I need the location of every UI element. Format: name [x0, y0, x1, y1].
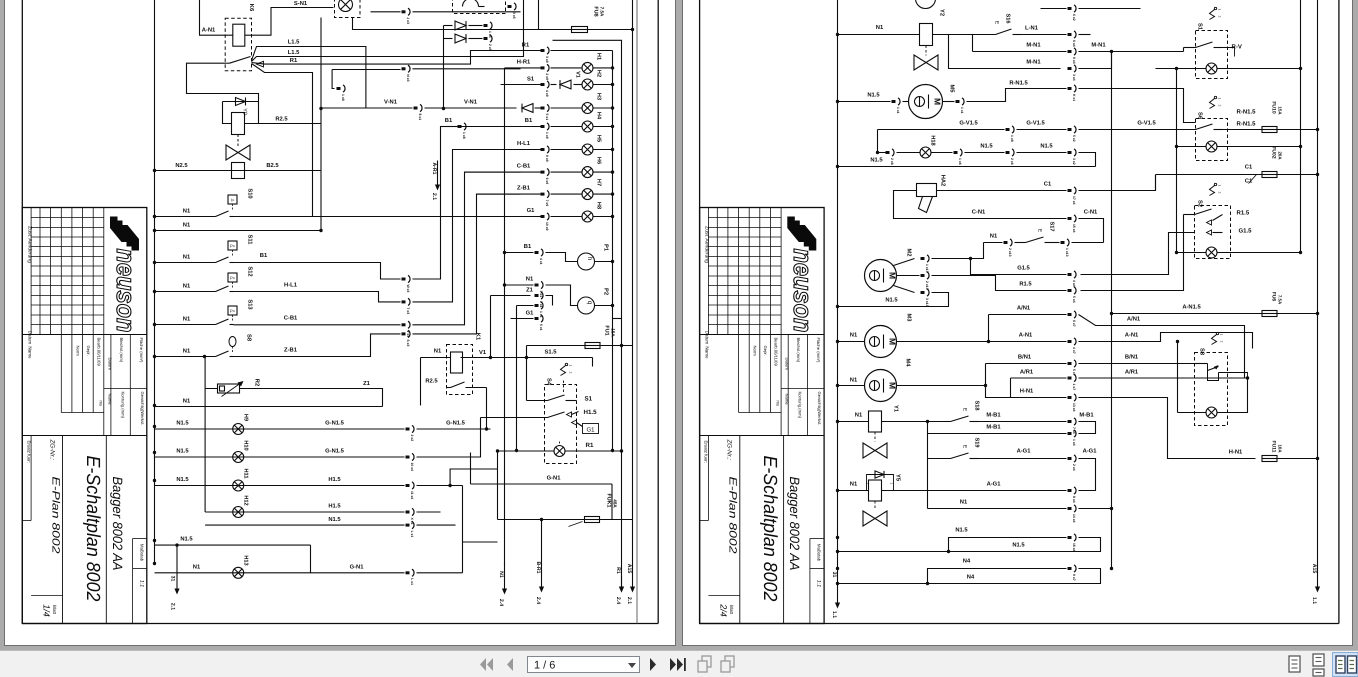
wire S10 G1: [234, 216, 521, 218]
svg-text:H18: H18: [930, 135, 936, 145]
page 1 frame left: [21, 0, 23, 624]
svg-text:1: 1: [1218, 98, 1222, 100]
svg-text:FU11: FU11: [1271, 441, 1277, 453]
svg-text:4 x7: 4 x7: [1072, 347, 1076, 354]
lamp row H10: [155, 456, 405, 458]
contact S4a: [526, 358, 528, 401]
svg-text:P1: P1: [603, 244, 609, 252]
switch S12: [228, 273, 237, 282]
svg-text:B1: B1: [260, 253, 268, 259]
svg-text:6 x2: 6 x2: [1072, 14, 1076, 21]
switch S4 head: [565, 363, 567, 365]
svg-text:G1.5: G1.5: [1017, 265, 1030, 272]
svg-text:R1.5: R1.5: [1019, 282, 1032, 288]
lamp row H11: [155, 485, 405, 487]
switch S16: [949, 34, 996, 36]
svg-text:G-V1.5: G-V1.5: [1026, 120, 1045, 127]
svg-text:Blechst.(mm): Blechst.(mm): [119, 338, 124, 363]
bus x621: [553, 40, 622, 575]
svg-text:N1: N1: [183, 223, 191, 229]
svg-text:N1: N1: [193, 565, 201, 571]
wire Z-B1 to conn S: [234, 334, 401, 357]
svg-text:J x3: J x3: [406, 17, 410, 24]
svg-text:B1: B1: [524, 244, 532, 250]
svg-text:Gepr.: Gepr.: [86, 346, 91, 356]
svg-text:1/4: 1/4: [41, 604, 51, 617]
svg-text:1 x8: 1 x8: [462, 132, 466, 139]
svg-text:Blechst.(mm): Blechst.(mm): [796, 338, 801, 363]
toolbar prev-page button (disabled): [507, 658, 513, 671]
svg-text:N1: N1: [850, 482, 858, 488]
svg-text:7.5A: 7.5A: [600, 7, 605, 17]
svg-text:L-N1: L-N1: [1025, 26, 1039, 32]
svg-text:N1.5: N1.5: [1012, 543, 1025, 549]
svg-text:H2: H2: [596, 70, 602, 77]
toolbar rotate-right icon (disabled): [725, 656, 734, 667]
switch S13: [228, 306, 237, 315]
svg-text:2: 2: [1218, 16, 1222, 18]
wire W to H4 row: [413, 127, 521, 280]
toolbar last-page button: [670, 658, 683, 671]
svg-text:H10: H10: [243, 440, 249, 450]
svg-text:A-N1.5: A-N1.5: [1182, 305, 1201, 311]
svg-text:H13: H13: [243, 555, 249, 565]
svg-text:M: M: [933, 98, 943, 105]
svg-text:Konturig.(mm): Konturig.(mm): [120, 392, 125, 419]
wire N1 K1 row: [155, 406, 383, 408]
svg-text:7.5A: 7.5A: [1278, 295, 1283, 305]
svg-text:Norm: Norm: [753, 346, 758, 357]
svg-text:31: 31: [831, 572, 837, 578]
svg-text:N1.5: N1.5: [176, 449, 189, 455]
svg-text:E: E: [962, 445, 968, 449]
wire to bus col: [252, 64, 313, 217]
wire L1.5 b: [252, 0, 524, 62]
svg-text:h: h: [586, 257, 593, 261]
conn J x3: [371, 11, 401, 13]
form grid: [748, 335, 750, 413]
page 2 frame bottom: [700, 623, 1339, 625]
svg-text:A15: A15: [1311, 564, 1317, 574]
motor M2: [865, 260, 897, 292]
pdf page 2 sheet: [682, 0, 1353, 646]
svg-text:S10: S10: [247, 188, 254, 198]
wire S17 feed: [971, 243, 984, 259]
svg-text:W x3: W x3: [406, 285, 410, 293]
Blatt cell: [31, 595, 62, 597]
contact K6: [230, 57, 251, 64]
svg-text:H-L1: H-L1: [517, 141, 531, 147]
svg-text:14 x4: 14 x4: [1072, 514, 1076, 523]
svg-text:V1: V1: [479, 350, 487, 356]
svg-text:ZG-Nr.:: ZG-Nr.:: [48, 439, 55, 461]
svg-text:A-N1: A-N1: [1125, 333, 1139, 339]
svg-text:2: 2: [866, 483, 870, 485]
svg-text:S1: S1: [585, 396, 593, 403]
svg-text:A-N1: A-N1: [202, 28, 216, 34]
switch S2: [1214, 183, 1216, 185]
svg-text:R2: R2: [254, 379, 261, 386]
wire N2.5 B2.5: [155, 170, 322, 172]
wire G1.5: [932, 259, 1067, 275]
svg-text:2.1: 2.1: [431, 193, 437, 200]
svg-text:2: 2: [1220, 341, 1224, 343]
svg-text:H-N1: H-N1: [1229, 450, 1243, 456]
svg-text:H6: H6: [596, 157, 602, 164]
bus x516: [516, 306, 518, 451]
svg-text:HA2: HA2: [940, 175, 947, 187]
bus x504: [504, 68, 506, 566]
svg-text:G-V1.5: G-V1.5: [1137, 120, 1156, 127]
svg-text:H11: H11: [243, 469, 249, 479]
lamp row H13: [155, 572, 405, 574]
page 1 inner frame hairline: [636, 0, 638, 624]
svg-text:2.4: 2.4: [615, 597, 621, 604]
switch S18: [951, 416, 969, 422]
svg-text:C-B1: C-B1: [517, 163, 531, 170]
svg-text:3 x4: 3 x4: [1072, 74, 1076, 81]
svg-text:A-G1: A-G1: [987, 481, 1002, 488]
svg-text:P>: P>: [230, 276, 236, 281]
svg-text:V-N1: V-N1: [464, 100, 478, 106]
svg-text:A15: A15: [626, 564, 632, 574]
svg-text:Datum: Datum: [785, 358, 790, 371]
wire B1 to conn W: [234, 263, 401, 280]
wire N1.5 row: [205, 524, 404, 526]
svg-text:R-N1.5: R-N1.5: [1009, 81, 1028, 87]
svg-text:B/N1: B/N1: [1018, 354, 1032, 361]
conn x8 down: [332, 70, 334, 89]
svg-text:P2: P2: [603, 288, 610, 295]
svg-text:Y1: Y1: [893, 405, 899, 413]
fuse FU6: [1262, 311, 1277, 317]
svg-text:1 x8: 1 x8: [1010, 135, 1014, 142]
svg-text:L1.5: L1.5: [288, 40, 300, 46]
svg-text:Norm: Norm: [75, 346, 80, 357]
top conn p2: [1041, 8, 1067, 10]
svg-text:1 x4: 1 x4: [1072, 439, 1076, 446]
svg-text:2 x9: 2 x9: [545, 73, 549, 80]
svg-text:3 x13: 3 x13: [925, 298, 929, 307]
svg-text:A-G1: A-G1: [1017, 448, 1032, 455]
revision table grid: [30, 208, 32, 335]
svg-text:A/R1: A/R1: [1020, 369, 1034, 376]
wire top feeds: [538, 0, 540, 30]
fuse FU02: [1156, 174, 1263, 176]
svg-text:1 / 6: 1 / 6: [534, 660, 555, 672]
svg-text:Fläche (mm²): Fläche (mm²): [816, 338, 821, 363]
relay K1: [447, 345, 473, 395]
svg-text:T x3: T x3: [406, 307, 410, 314]
svg-text:Name: Name: [27, 346, 32, 359]
svg-text:I>: I>: [231, 198, 235, 203]
svg-text:L1.5: L1.5: [288, 50, 300, 56]
fuse FUK1: [497, 451, 499, 520]
svg-text:Gewichtig)Werkst.: Gewichtig)Werkst.: [140, 392, 145, 426]
svg-text:C-N1: C-N1: [1084, 209, 1098, 216]
arrow 31: [176, 545, 178, 590]
valve Y2: [914, 55, 938, 70]
wire S2 feeds: [1081, 233, 1195, 275]
svg-text:2 x13: 2 x13: [925, 281, 929, 290]
Blatt cell: [708, 595, 739, 597]
svg-text:9 x4: 9 x4: [1072, 57, 1076, 64]
potentiometer R2: [205, 357, 217, 389]
svg-text:Y2: Y2: [939, 9, 946, 16]
svg-text:N1.5: N1.5: [176, 477, 189, 483]
switch S19: [927, 422, 929, 459]
wire L1.5 a: [252, 47, 366, 108]
svg-text:R1: R1: [522, 43, 530, 49]
svg-text:10A: 10A: [1278, 444, 1283, 453]
svg-text:H1.5: H1.5: [584, 409, 598, 416]
lamp row H9: [155, 428, 405, 430]
diode row 2: [444, 38, 453, 40]
toolbar next-page button: [650, 658, 656, 671]
svg-text:P>: P>: [230, 309, 236, 314]
svg-text:S19: S19: [974, 438, 980, 448]
svg-text:N1: N1: [876, 25, 884, 31]
svg-text:N1: N1: [183, 284, 191, 290]
svg-text:ZG-Nr.:: ZG-Nr.:: [726, 439, 733, 461]
bus x1317: [1317, 0, 1319, 576]
svg-text:MaBstab: MaBstab: [817, 544, 822, 562]
svg-text:9 x9: 9 x9: [545, 155, 549, 162]
svg-text:4 x1: 4 x1: [539, 258, 543, 265]
svg-text:S-N1: S-N1: [294, 0, 308, 7]
svg-text:4 x9: 4 x9: [545, 90, 549, 97]
ZG-Nr row: [22, 435, 147, 437]
svg-text:N1: N1: [183, 209, 191, 215]
svg-text:1 x9: 1 x9: [545, 132, 549, 139]
svg-text:2 x5: 2 x5: [488, 44, 492, 51]
svg-text:C1: C1: [1044, 181, 1052, 188]
svg-text:3 x2: 3 x2: [1072, 158, 1076, 165]
svg-text:2.4: 2.4: [535, 597, 541, 604]
svg-text:N1: N1: [960, 500, 968, 506]
svg-text:10 x4: 10 x4: [410, 463, 414, 472]
svg-text:N2.5: N2.5: [175, 162, 188, 169]
svg-text:5 x4: 5 x4: [1072, 296, 1076, 303]
svg-text:Z1: Z1: [526, 288, 534, 294]
page 1 frame bottom: [22, 623, 658, 625]
svg-text:1:1: 1:1: [138, 580, 144, 587]
svg-text:8 x1: 8 x1: [418, 114, 422, 121]
svg-text:1: 1: [1218, 185, 1222, 187]
svg-text:N1.5: N1.5: [176, 421, 189, 427]
svg-text:M-B1: M-B1: [986, 425, 1001, 431]
switch S11: [228, 241, 237, 250]
svg-text:G1.5: G1.5: [1239, 228, 1253, 235]
svg-text:Ersatz fuer:: Ersatz fuer:: [704, 441, 709, 463]
wire R1.5: [932, 276, 1067, 291]
cut component top p2: [916, 0, 936, 9]
title block frame: [22, 208, 147, 624]
contact S4b: [481, 417, 548, 419]
svg-text:Blatt: Blatt: [729, 605, 734, 615]
svg-text:A-G1: A-G1: [1083, 448, 1098, 455]
svg-text:ms: ms: [776, 401, 781, 407]
svg-text:R1: R1: [615, 567, 621, 574]
svg-text:Datum: Datum: [107, 358, 112, 371]
svg-text:1:1: 1:1: [816, 580, 822, 587]
svg-text:S3: S3: [1199, 348, 1206, 356]
svg-text:G-N1.5: G-N1.5: [325, 420, 344, 427]
svg-text:N1: N1: [498, 571, 504, 578]
svg-text:q: q: [586, 301, 593, 305]
svg-text:N4: N4: [963, 559, 971, 565]
svg-text:H12: H12: [243, 495, 249, 505]
svg-text:R1: R1: [586, 442, 594, 449]
svg-text:1 x6: 1 x6: [958, 158, 962, 165]
svg-text:10 x9: 10 x9: [545, 222, 549, 231]
lamp S-N1 box: [335, 0, 361, 18]
bus x1300: [1300, 0, 1302, 253]
valve Y1: [863, 443, 887, 458]
arrow A15 2.1: [630, 587, 635, 593]
svg-text:9 x7: 9 x7: [1072, 574, 1076, 581]
svg-text:S18: S18: [974, 401, 980, 411]
svg-text:N1: N1: [183, 399, 191, 405]
svg-text:2.1: 2.1: [626, 597, 632, 604]
svg-text:N x3: N x3: [406, 74, 410, 81]
fuse FU10: [1262, 127, 1277, 133]
svg-text:6 x9: 6 x9: [545, 178, 549, 185]
svg-text:6 x7: 6 x7: [1072, 320, 1076, 327]
svg-text:15A: 15A: [611, 328, 616, 337]
form grid: [71, 335, 73, 413]
wire T to H5 row: [413, 150, 521, 302]
svg-text:S16: S16: [1005, 14, 1011, 24]
wire R2.5: [259, 123, 322, 125]
svg-text:R1: R1: [290, 58, 298, 64]
lamp S2: [1177, 252, 1207, 254]
svg-text:17 x4: 17 x4: [1072, 196, 1076, 205]
svg-text:Blatt: Blatt: [52, 605, 57, 615]
svg-text:5 x1: 5 x1: [545, 114, 549, 121]
svg-text:Gepr.: Gepr.: [763, 346, 768, 356]
solenoid Y0: [223, 102, 232, 124]
svg-text:G1: G1: [586, 427, 595, 434]
svg-text:S8: S8: [246, 334, 253, 342]
svg-text:H-N1: H-N1: [1020, 389, 1034, 395]
svg-text:Z1: Z1: [363, 381, 371, 387]
svg-text:G-N1: G-N1: [350, 564, 365, 571]
svg-text:Bagger 8002 AA: Bagger 8002 AA: [787, 477, 802, 571]
svg-text:N1: N1: [526, 277, 534, 283]
svg-text:M-N1: M-N1: [1026, 60, 1041, 66]
fuse FU1: [527, 345, 586, 347]
svg-text:H8: H8: [596, 202, 602, 209]
svg-text:A/N1: A/N1: [1127, 316, 1141, 323]
svg-text:15A: 15A: [1278, 106, 1283, 115]
svg-text:M2: M2: [906, 248, 913, 256]
lamp S4: [498, 450, 555, 452]
svg-text:M: M: [888, 272, 898, 279]
svg-text:Name: Name: [705, 346, 710, 359]
svg-text:31: 31: [170, 576, 176, 582]
wire K6 loop: [187, 63, 259, 101]
svg-text:S1.5: S1.5: [545, 349, 558, 356]
svg-text:Name: Name: [785, 394, 790, 406]
svg-text:H-R1: H-R1: [517, 60, 531, 66]
svg-text:C-B1: C-B1: [284, 315, 298, 322]
svg-text:neuson: neuson: [788, 249, 818, 333]
svg-text:B1: B1: [445, 118, 453, 124]
svg-text:Datum: Datum: [705, 331, 710, 345]
svg-text:Bagger 8002 AA: Bagger 8002 AA: [110, 477, 125, 571]
svg-text:N1.5: N1.5: [180, 537, 193, 543]
valve Y0: [237, 135, 239, 147]
svg-text:FUK1: FUK1: [606, 493, 612, 507]
svg-text:H7: H7: [596, 179, 602, 186]
svg-text:G1: G1: [527, 207, 536, 214]
svg-text:N1: N1: [850, 378, 858, 384]
switch S10: [228, 195, 237, 204]
svg-text:G-N1.5: G-N1.5: [446, 420, 465, 427]
wire Y2 to M-N1: [933, 35, 1061, 69]
gauge P1: [546, 253, 579, 262]
svg-text:M4: M4: [905, 358, 911, 367]
svg-text:2 x2: 2 x2: [410, 435, 414, 442]
svg-text:G-N1: G-N1: [547, 475, 562, 482]
svg-text:H1: H1: [596, 53, 602, 60]
bus lamp return: [612, 51, 614, 451]
svg-text:Fläche (mm²): Fläche (mm²): [139, 338, 144, 363]
wire S to H7 row: [413, 194, 521, 334]
G1 box: [583, 424, 599, 434]
svg-text:S1: S1: [1197, 23, 1204, 31]
svg-text:K x1: K x1: [1072, 94, 1076, 101]
svg-text:1 x13: 1 x13: [1065, 248, 1069, 257]
toolbar first-page button (disabled): [480, 658, 493, 671]
svg-text:Y0-: Y0-: [242, 108, 248, 117]
svg-text:L x1: L x1: [410, 531, 414, 538]
contact K1: [447, 387, 451, 389]
bus col x321: [320, 18, 322, 231]
svg-text:K6: K6: [248, 4, 255, 12]
svg-text:R-N1.5: R-N1.5: [1237, 121, 1257, 128]
wire H-L1 to conn T: [234, 292, 401, 302]
ZG-Nr row: [700, 435, 825, 437]
svg-text:1 x1: 1 x1: [896, 107, 900, 114]
svg-text:M5: M5: [949, 84, 955, 93]
svg-text:B2.5: B2.5: [266, 162, 279, 169]
svg-text:S11: S11: [247, 235, 254, 246]
svg-text:H-L1: H-L1: [284, 283, 298, 289]
svg-text:2: 2: [1218, 192, 1222, 194]
svg-text:H1.5: H1.5: [328, 477, 341, 483]
arrow R1 2.4: [621, 576, 623, 589]
svg-text:E-Plan 8002: E-Plan 8002: [727, 477, 739, 554]
svg-text:S17: S17: [1049, 222, 1055, 232]
svg-text:Z-B1: Z-B1: [284, 348, 298, 354]
diode row 1: [444, 25, 453, 27]
gauge P2: [546, 285, 578, 306]
svg-text:C1: C1: [1245, 164, 1253, 171]
pdf page 1 sheet: [4, 0, 676, 646]
svg-text:R2.5: R2.5: [275, 116, 288, 123]
svg-text:V1: V1: [575, 71, 581, 78]
svg-text:E: E: [1037, 229, 1043, 233]
svg-text:Gewichtig)Werkst.: Gewichtig)Werkst.: [817, 392, 822, 426]
relay K6: [225, 18, 251, 71]
lamp S3: [1178, 412, 1207, 414]
svg-text:8 x4: 8 x4: [1072, 496, 1076, 503]
svg-text:48A: 48A: [613, 499, 618, 508]
svg-text:6 x4: 6 x4: [1072, 40, 1076, 47]
svg-text:B/N1: B/N1: [1125, 354, 1139, 361]
